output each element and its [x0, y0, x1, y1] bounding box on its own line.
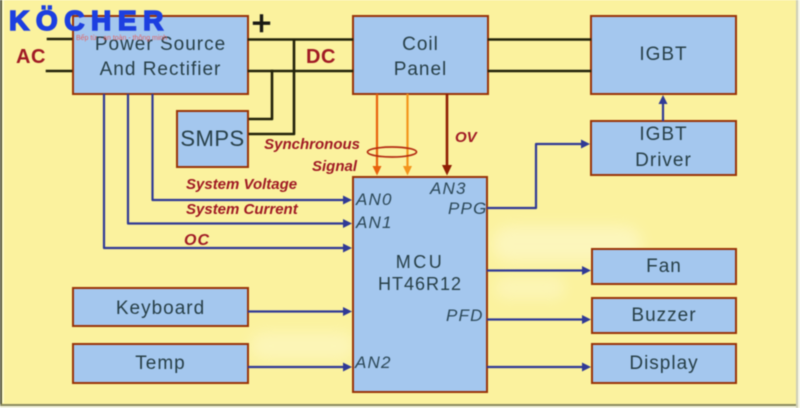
watermark haze 2	[250, 332, 355, 360]
wire Temp to AN2	[249, 366, 344, 368]
arrow Temp	[343, 363, 352, 372]
block Keyboard	[72, 287, 249, 327]
block Fan	[591, 248, 737, 285]
edge left dark	[0, 0, 2, 406]
arrow synchronous left	[373, 166, 382, 176]
label OV	[455, 129, 477, 146]
label plus	[255, 16, 269, 31]
edge left pale	[2, 0, 5, 403]
arrow Buzzer	[582, 315, 591, 324]
logo subtitle	[76, 33, 167, 42]
logo KOCHER	[9, 5, 170, 37]
label Synchronous	[262, 136, 360, 153]
arrow System Voltage	[343, 196, 352, 205]
block Temp	[72, 343, 249, 384]
arrow System Current	[343, 219, 352, 228]
label System Current	[186, 201, 298, 218]
block IGBT Driver	[590, 120, 737, 176]
arrow OV	[442, 165, 452, 176]
wire coil to IGBT bottom	[489, 70, 590, 73]
block IGBT	[590, 15, 737, 95]
arrow Keyboard	[343, 307, 352, 316]
pin PFD	[446, 306, 484, 326]
wire DC bus power to coil	[249, 70, 352, 73]
label AC	[16, 46, 46, 69]
label DC	[306, 46, 336, 69]
wire PPG to IGBT Driver	[488, 144, 582, 208]
pin AN1	[356, 213, 393, 233]
arrow OC	[343, 244, 352, 253]
pin AN2	[355, 353, 392, 373]
pin AN0	[356, 190, 393, 210]
block SMPS	[176, 110, 249, 168]
block Power Source And Rectifier	[72, 15, 249, 95]
block Buzzer	[591, 297, 737, 334]
pin PPG	[448, 199, 488, 219]
label Signal	[262, 158, 357, 175]
wire OV coil to AN3	[446, 95, 449, 166]
wire coil to IGBT top	[489, 38, 590, 41]
block MCU HT46R12	[352, 176, 488, 393]
wire AC stub top	[48, 38, 71, 41]
wire plus bus power to coil	[249, 38, 352, 41]
edge right pale	[798, 0, 800, 408]
arrow Fan	[582, 266, 591, 275]
wire SMPS branch from plus bus	[250, 40, 294, 134]
wire System Voltage to AN0	[153, 95, 346, 200]
wire System Current to AN1	[128, 95, 345, 224]
wire Keyboard to MCU	[249, 310, 344, 312]
sync marker ellipse	[368, 147, 417, 157]
wire SMPS branch from DC bus	[250, 71, 272, 119]
label OC	[184, 232, 210, 250]
pin AN3	[430, 179, 467, 199]
block Coil Panel	[352, 15, 489, 95]
watermark haze 3	[495, 276, 565, 300]
arrow IGBT Driver to IGBT	[659, 95, 668, 104]
block Display	[591, 343, 737, 384]
wire MCU to Fan	[488, 269, 583, 271]
arrow synchronous right	[403, 166, 412, 176]
edge right gray	[796, 0, 798, 408]
label System Voltage	[186, 176, 297, 193]
wire synchronous signal left	[376, 95, 378, 167]
arrow PPG	[581, 140, 590, 149]
arrow Display	[582, 363, 591, 372]
wire MCU to Display	[488, 366, 583, 368]
wire IGBT Driver to IGBT	[662, 104, 664, 120]
edge bottom olive	[0, 404, 800, 407]
wire PFD to Buzzer	[488, 318, 583, 320]
wire OC to MCU	[104, 95, 345, 248]
edge bottom pale	[0, 406, 800, 408]
watermark haze 1	[492, 226, 642, 262]
wire AC stub bottom	[47, 70, 71, 73]
wire synchronous signal right	[406, 95, 408, 167]
